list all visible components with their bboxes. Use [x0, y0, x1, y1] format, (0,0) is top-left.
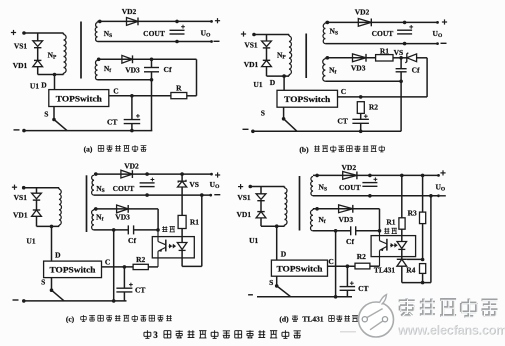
node collector junction (c)	[156, 228, 160, 232]
label Uo (a)	[201, 29, 211, 39]
resistor R1 (b)	[376, 55, 393, 61]
wire VD3 corner vertical (d)	[379, 209, 381, 231]
svg-text:VD3: VD3	[339, 215, 354, 224]
resistor R1 (d)	[399, 218, 405, 229]
label TL431 (d)	[374, 265, 396, 274]
label VS1 (d)	[237, 193, 251, 202]
svg-text:www.elecfans.com: www.elecfans.com	[396, 322, 505, 337]
output bottom end dot (c)	[209, 194, 212, 197]
diode VD1 (d)	[256, 212, 266, 218]
svg-text:R2: R2	[357, 252, 366, 261]
bottom rail dot (c)	[22, 299, 26, 303]
label Nf (b)	[329, 66, 336, 76]
transformer core (a)	[80, 22, 82, 79]
optocoupler box (c)	[152, 237, 194, 258]
diode VD2 (c)	[121, 170, 132, 178]
node drain junction (a)	[53, 73, 57, 77]
wire Nf return vertical (b)	[400, 81, 402, 131]
node divider junction (d)	[421, 258, 425, 262]
svg-text:VD2: VD2	[122, 7, 137, 16]
CT polarity + (c)	[129, 283, 133, 287]
label R1 (b)	[380, 47, 389, 56]
node Nf return tee (c)	[112, 228, 116, 232]
svg-text:S: S	[44, 109, 48, 118]
wire Np top stub (a)	[63, 33, 65, 35]
opto light arrows (c)	[168, 245, 175, 248]
label Nf (d)	[318, 215, 325, 225]
diode VD1 (b)	[262, 60, 272, 66]
svg-text:D: D	[270, 78, 276, 87]
zener VS1 (b)	[262, 41, 272, 48]
label U1 (d)	[249, 236, 258, 245]
wire R3 top lead (d)	[422, 175, 424, 212]
node COUT top (b)	[403, 21, 407, 25]
input - terminal (d)	[248, 294, 253, 296]
output bottom rail dot (c)	[200, 193, 204, 197]
label R1 (c)	[190, 218, 199, 227]
wire VS to R1 (c)	[181, 187, 183, 215]
opto phototransistor (d)	[380, 231, 387, 266]
caption (c) text 配稳压管的光耦反馈电路	[81, 315, 172, 321]
output - terminal (a)	[214, 40, 220, 42]
wire node to VS (b)	[401, 57, 407, 59]
svg-text:VS: VS	[394, 48, 404, 57]
wire VD1 bottom (d)	[260, 218, 262, 226]
label VD2 (b)	[355, 8, 370, 17]
secondary winding Ns (d)	[311, 177, 313, 196]
wire C pin (d)	[328, 265, 356, 267]
pin label S (d)	[269, 278, 273, 287]
node COUT bottom (b)	[403, 42, 407, 46]
CT polarity + (a)	[136, 114, 140, 118]
wire LED return horizontal (c)	[182, 265, 202, 267]
wire Cf bottom lead (b)	[400, 72, 402, 82]
node Nf bottom (b)	[399, 80, 403, 84]
wire Nf top stub (a)	[97, 59, 99, 60]
wire bottom rail (a)	[24, 130, 152, 132]
wire feedback top rail (c)	[94, 208, 158, 210]
primary winding Np (d)	[285, 188, 288, 225]
svg-text:S: S	[41, 278, 45, 287]
label VD2 (d)	[342, 163, 357, 172]
pin label C (d)	[328, 257, 333, 266]
label CT (a)	[107, 118, 117, 127]
label R2 (c)	[136, 255, 145, 264]
wire R1 top lead (d)	[401, 175, 403, 217]
diode VD3 (b)	[353, 54, 367, 62]
svg-text:R1: R1	[380, 47, 389, 56]
node VS top (c)	[180, 172, 184, 176]
svg-text:COUT: COUT	[372, 29, 394, 38]
svg-text:(d): (d)	[279, 315, 289, 324]
wire bottom rail (c)	[24, 300, 127, 302]
wire R2 to emitter (d)	[370, 265, 380, 267]
wire bottom rail (d)	[257, 296, 352, 298]
svg-text:D: D	[55, 250, 61, 259]
svg-text:Cf: Cf	[412, 66, 420, 75]
wire output bottom rail (c)	[94, 194, 212, 196]
svg-text:U1: U1	[30, 82, 39, 91]
svg-text:VD3: VD3	[115, 212, 130, 221]
label VD2 (a)	[122, 7, 137, 16]
input - terminal (b)	[243, 128, 249, 130]
op-amp U1 TOPSwitch box (d)	[271, 260, 327, 276]
svg-text:CT: CT	[107, 118, 117, 127]
svg-text:TOPSwitch: TOPSwitch	[277, 264, 324, 273]
node R3 rail (d)	[421, 174, 425, 178]
label COUT (d)	[339, 183, 361, 192]
diode VD2 (b)	[358, 19, 371, 27]
wire Nf return vertical (d)	[335, 231, 337, 297]
diode VD2 (d)	[343, 172, 357, 180]
label R2 (d)	[357, 252, 366, 261]
wire clamp stub (d)	[260, 187, 262, 194]
label VD2 (c)	[124, 162, 139, 171]
svg-text:CT: CT	[135, 285, 145, 294]
node R1 rail (d)	[400, 174, 404, 178]
node CT bottom (a)	[130, 129, 134, 133]
svg-text:D: D	[41, 81, 47, 90]
node COUT top (d)	[368, 174, 372, 178]
wire R3 bottom lead (d)	[422, 224, 424, 260]
label Cf (b)	[412, 66, 420, 75]
opto LED (d)	[397, 242, 407, 250]
caption (a) text 基本反馈电路	[98, 145, 146, 151]
wire TL431 anode (d)	[401, 266, 403, 282]
wire S diagonal (c)	[52, 290, 65, 301]
svg-text:VS: VS	[189, 180, 199, 189]
wire Np top stub (d)	[284, 187, 286, 189]
svg-text:VS1: VS1	[244, 41, 258, 50]
node C junction (c)	[123, 265, 127, 269]
node S junction (d)	[275, 284, 279, 288]
label COUT (c)	[113, 184, 135, 193]
wire C pin (c)	[102, 266, 134, 268]
wire clamp stub (c)	[36, 188, 38, 194]
opto phototransistor (c)	[158, 230, 166, 267]
output + terminal (d)	[440, 170, 445, 175]
wire clamp bottom (c)	[37, 225, 60, 227]
secondary winding Ns (a)	[95, 23, 97, 42]
shunt regulator TL431 (d)	[397, 259, 407, 266]
wire VS to corner (b)	[417, 57, 428, 59]
svg-text:(b): (b)	[299, 145, 309, 154]
resistor R2 (c)	[133, 264, 148, 269]
wire CT bottom lead (a)	[131, 124, 133, 131]
output + terminal (a)	[215, 18, 220, 23]
wire R2 to emitter (c)	[148, 266, 158, 268]
diode VD2 (a)	[127, 18, 139, 26]
input + terminal (d)	[238, 184, 243, 189]
node Nf top dot (d)	[315, 207, 319, 211]
label VD3 (b)	[351, 64, 366, 73]
label VD1 (b)	[244, 60, 259, 69]
label R1 (d)	[386, 217, 395, 226]
output + terminal (b)	[442, 19, 447, 24]
wire R1 to opto (c)	[181, 229, 183, 243]
node COUT bottom (a)	[175, 40, 179, 44]
svg-text:CT: CT	[358, 284, 368, 293]
wire Np bottom stub (d)	[284, 225, 286, 226]
node Nf return rail (d)	[334, 295, 338, 299]
wire Np top stub (c)	[58, 188, 60, 190]
caption (d) TL431	[302, 314, 324, 323]
CT polarity + (d)	[350, 281, 354, 285]
capacitor COUT (a)	[170, 30, 185, 34]
wire S pin (c)	[51, 278, 53, 291]
svg-text:VS1: VS1	[14, 193, 28, 202]
svg-text:R1: R1	[386, 217, 395, 226]
label CT (d)	[358, 284, 368, 293]
primary winding Np (c)	[59, 189, 61, 225]
op-amp U1 TOPSwitch box (b)	[277, 90, 338, 107]
input - terminal (a)	[14, 129, 20, 131]
output top end dot (a)	[210, 20, 213, 23]
label Cf (d)	[346, 237, 354, 246]
diode VD1 (c)	[32, 210, 42, 216]
watermark faint dash	[340, 331, 356, 333]
wire S diagonal (d)	[277, 286, 291, 297]
svg-text:VD2: VD2	[124, 162, 139, 171]
feedback winding Nf (b)	[323, 59, 326, 81]
wire TL431 ref (d)	[407, 258, 423, 260]
label VS (b)	[394, 48, 404, 57]
caption (b) prefix	[299, 145, 309, 154]
label CT (c)	[135, 285, 145, 294]
optocoupler box (d)	[371, 236, 416, 257]
zener VS (b)	[405, 53, 416, 63]
svg-text:COUT: COUT	[339, 183, 361, 192]
wire drain to TOPSwitch (b)	[283, 76, 285, 90]
label VS1 (b)	[244, 41, 258, 50]
wire feedback top rail (a)	[98, 58, 197, 60]
node S junction (c)	[50, 288, 54, 292]
svg-text:U1: U1	[253, 80, 262, 89]
figure caption 图	[144, 330, 151, 338]
wire bottom rail (b)	[253, 130, 401, 132]
svg-text:VD3: VD3	[351, 64, 366, 73]
svg-text:VD1: VD1	[13, 210, 28, 219]
output top end dot (d)	[437, 174, 440, 177]
wire Cf to collector (d)	[356, 230, 380, 232]
svg-text:3: 3	[153, 330, 158, 340]
wire VS stub (c)	[181, 174, 183, 181]
svg-text:(c): (c)	[66, 314, 75, 323]
svg-text:S: S	[261, 108, 265, 117]
wire Nf bottom left (c)	[94, 229, 128, 231]
wire output top rail (c)	[94, 173, 212, 175]
wire VD1 bottom (c)	[36, 216, 38, 226]
wire S diagonal (b)	[284, 119, 297, 132]
caption (b) text 改进型基本反馈电路	[314, 145, 384, 151]
svg-text:R2: R2	[136, 255, 145, 264]
pin label C (a)	[113, 87, 118, 96]
node Ns top dot (c)	[94, 172, 98, 176]
output - terminal (b)	[441, 42, 447, 44]
label Cf (a)	[164, 65, 172, 74]
label VD3 (c)	[115, 212, 130, 221]
feedback winding Nf (a)	[95, 60, 97, 79]
wire Nf bottom (d)	[313, 230, 351, 232]
pin label S (a)	[44, 109, 48, 118]
caption (c) prefix	[66, 314, 75, 323]
capacitor Cf (d)	[351, 226, 356, 235]
caption (a) prefix	[84, 145, 93, 154]
wire Cf top lead (a)	[151, 59, 153, 67]
svg-text:D: D	[281, 250, 287, 259]
wire ground return horizontal (d)	[402, 282, 431, 284]
label Uo (b)	[433, 29, 443, 39]
feedback winding Nf (c)	[92, 210, 94, 230]
node Nf bottom (a)	[150, 78, 154, 82]
op-amp U1 TOPSwitch box (a)	[49, 90, 109, 107]
output - terminal (d)	[440, 195, 446, 197]
transformer core (c)	[86, 175, 88, 232]
caption (d) text 配	[292, 315, 298, 321]
wire output bottom rail (d)	[313, 195, 439, 197]
svg-text:U1: U1	[249, 236, 258, 245]
wire LED cathode (d)	[401, 249, 403, 259]
svg-text:TOPSwitch: TOPSwitch	[56, 94, 103, 103]
CT polarity + (b)	[364, 114, 368, 118]
wire Nf return vertical (c)	[113, 230, 115, 301]
label R2 (b)	[369, 102, 378, 111]
wire feedback top rail (b)	[325, 57, 375, 59]
capacitor COUT (d)	[362, 183, 377, 187]
label VD1 (c)	[13, 210, 28, 219]
svg-text:Cf: Cf	[346, 237, 354, 246]
secondary winding Ns (b)	[323, 24, 325, 44]
node R2 top junction (b)	[359, 95, 363, 99]
label U1 (a)	[30, 82, 39, 91]
wire drain to TOPSwitch (d)	[276, 226, 278, 260]
wire Nf top stub (d)	[312, 209, 314, 210]
label U1 (b)	[253, 80, 262, 89]
wire R1 to LED (d)	[401, 229, 403, 241]
diode VD1 (a)	[33, 60, 43, 66]
node COUT bottom (c)	[145, 193, 149, 197]
label Uo (c)	[210, 180, 220, 190]
wire LED cathode (c)	[181, 250, 183, 266]
pin label C (b)	[341, 87, 346, 96]
pin label D (a)	[41, 81, 47, 90]
wire Ns top stub (a)	[97, 21, 99, 22]
wire C pin (b)	[338, 96, 428, 98]
COUT polarity + (d)	[374, 177, 378, 181]
wire Nf bottom (a)	[98, 79, 152, 81]
primary winding Np (b)	[289, 36, 292, 75]
svg-text:VD2: VD2	[355, 8, 370, 17]
wire Np bottom stub (c)	[58, 225, 60, 226]
svg-text:TOPSwitch: TOPSwitch	[50, 266, 97, 275]
output bottom end dot (d)	[437, 194, 440, 197]
capacitor COUT (c)	[140, 183, 155, 187]
zener VS1 (d)	[256, 194, 266, 201]
diode VD3 (a)	[122, 55, 133, 63]
label Ns (d)	[319, 183, 327, 193]
opto light arrows (d)	[390, 244, 397, 247]
svg-text:COUT: COUT	[143, 29, 165, 38]
wire clamp stub (b)	[266, 35, 268, 42]
caption (d) prefix	[279, 315, 289, 324]
wire drain to TOPSwitch (c)	[51, 226, 53, 261]
wire Np bottom stub (a)	[63, 73, 65, 75]
wire CT bottom lead (b)	[360, 123, 362, 131]
label Nf (c)	[96, 212, 103, 222]
capacitor CT (b)	[352, 119, 369, 123]
svg-text:C: C	[113, 87, 118, 96]
pin label D (c)	[55, 250, 61, 259]
wire CT bottom lead (c)	[123, 292, 125, 301]
wire input top rail (b)	[254, 34, 289, 36]
wire Nf return vertical (a)	[151, 80, 153, 131]
label R3 (d)	[408, 209, 417, 218]
wire Nf bottom (b)	[325, 80, 401, 82]
label Cf (c)	[128, 236, 136, 245]
pin label S (c)	[41, 278, 45, 287]
node COUT top (c)	[145, 172, 149, 176]
label Np (b)	[277, 51, 286, 61]
primary winding Np (a)	[64, 35, 67, 74]
wire drain to TOPSwitch (a)	[54, 75, 56, 90]
label Ns (a)	[104, 29, 112, 39]
input + terminal (b)	[241, 31, 246, 36]
label CT (b)	[337, 117, 347, 126]
node drain junction (d)	[275, 224, 279, 228]
label Uo (d)	[435, 182, 445, 192]
svg-text:R2: R2	[369, 102, 378, 111]
capacitor CT (a)	[124, 120, 141, 124]
svg-text:R3: R3	[408, 209, 417, 218]
svg-text:S: S	[269, 278, 273, 287]
caption (d) text 的光耦反	[329, 315, 358, 321]
wire CT bottom lead (d)	[346, 290, 348, 297]
watermark logo circle	[359, 295, 394, 338]
svg-text:R1: R1	[190, 218, 199, 227]
input node dot (c)	[22, 186, 26, 190]
figure caption 3	[153, 330, 158, 340]
wire input top rail (a)	[24, 32, 64, 34]
node drain junction (c)	[50, 225, 54, 229]
node S junction (a)	[52, 118, 56, 122]
wire VD1 bottom (a)	[37, 67, 39, 75]
wire Nf top stub (b)	[324, 58, 326, 59]
svg-text:CT: CT	[337, 117, 347, 126]
wire R2 to CT (b)	[360, 113, 362, 119]
wire Cf bottom lead (a)	[151, 72, 153, 80]
wire VD1 bottom (b)	[266, 67, 268, 77]
COUT polarity + (a)	[181, 25, 185, 29]
pin label D (d)	[281, 250, 287, 259]
label R4 (d)	[406, 266, 415, 275]
pin label C (c)	[105, 258, 110, 267]
secondary winding Ns (c)	[92, 175, 94, 195]
label VD1 (a)	[13, 61, 28, 70]
capacitor COUT (b)	[397, 30, 412, 34]
svg-text:VS1: VS1	[237, 193, 251, 202]
node Nf return rail (c)	[112, 299, 116, 303]
wire output top rail (d)	[313, 174, 439, 176]
node Nf top dot (b)	[326, 56, 330, 60]
pin label S (b)	[261, 108, 265, 117]
COUT polarity + (c)	[151, 178, 155, 182]
svg-text:Cf: Cf	[128, 236, 136, 245]
diode VD3 (d)	[339, 205, 353, 213]
input node dot (d)	[249, 185, 253, 189]
label COUT (b)	[372, 29, 394, 38]
wire Cf to collector (c)	[134, 229, 158, 231]
capacitor Cf (c)	[128, 225, 133, 234]
